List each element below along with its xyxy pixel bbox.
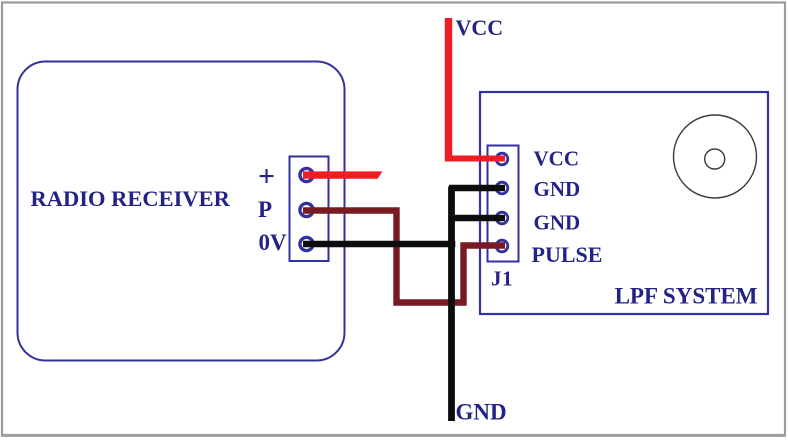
block LPF SYSTEM — [480, 92, 768, 314]
svg-text:P: P — [258, 197, 272, 222]
svg-text:J1: J1 — [491, 267, 513, 291]
svg-text:RADIO RECEIVER: RADIO RECEIVER — [31, 186, 231, 211]
connector header (radio receiver) — [290, 157, 329, 262]
wire GND to pin2 (black) — [449, 185, 505, 192]
pin 0V — [300, 237, 313, 250]
wire GND to pin3 (black) — [449, 215, 505, 222]
svg-text:GND: GND — [456, 400, 507, 425]
connector J1 — [488, 146, 519, 262]
pin 3 GND — [496, 212, 508, 224]
svg-text:VCC: VCC — [534, 147, 580, 171]
pin + — [300, 168, 313, 181]
svg-text:GND: GND — [534, 211, 581, 235]
wire VCC horizontal (red) — [445, 156, 505, 162]
wire 0V (black) — [303, 241, 455, 248]
wire P to PULSE (maroon) — [303, 211, 505, 303]
svg-text:+: + — [258, 160, 275, 193]
pin 2 GND — [496, 182, 508, 194]
svg-text:VCC: VCC — [456, 15, 504, 40]
svg-text:GND: GND — [534, 177, 581, 201]
wire GND vertical (black) — [448, 187, 455, 422]
pin 1 VCC — [496, 153, 508, 165]
svg-text:PULSE: PULSE — [532, 242, 603, 267]
pin P — [300, 203, 313, 216]
wire VCC (red) — [445, 18, 452, 162]
svg-text:0V: 0V — [258, 230, 287, 255]
svg-text:LPF SYSTEM: LPF SYSTEM — [615, 284, 758, 309]
wire + stub (red) — [303, 171, 383, 178]
pin 4 PULSE — [496, 240, 508, 252]
speaker — [674, 115, 757, 198]
block RADIO RECEIVER — [18, 62, 345, 361]
